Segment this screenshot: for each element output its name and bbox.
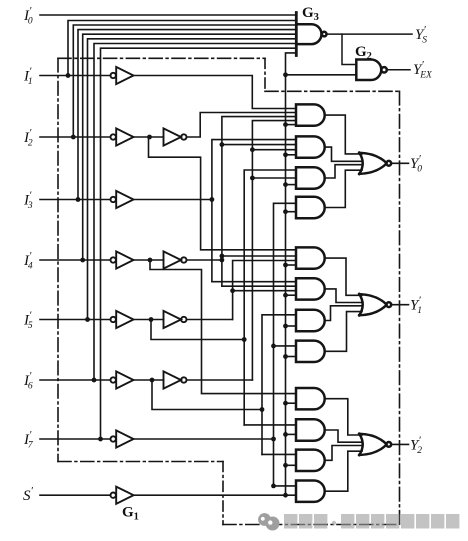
node: I6bar tap A2 junction bbox=[250, 147, 255, 152]
AND gate A3 bbox=[296, 167, 325, 188]
node: I7' tap junction bbox=[98, 437, 103, 442]
wire: C3 output to NOR Y2 input 3 bbox=[325, 446, 362, 461]
wire: input row I2' bbox=[40, 136, 111, 138]
wire: S tap to B3 input 2 bbox=[286, 325, 297, 327]
IC boundary chain line: left edge bbox=[57, 58, 59, 461]
svg-text:Y′EX: Y′EX bbox=[413, 59, 433, 81]
node: I7 dropper C4 junction bbox=[271, 484, 276, 489]
wire: B3 output to NOR Y1 input 3 bbox=[325, 306, 362, 321]
svg-text:Y′S: Y′S bbox=[415, 24, 427, 46]
wire: S tap to C1 input 2 bbox=[286, 402, 297, 404]
wire: C1 output to NOR Y2 input 1 bbox=[325, 399, 362, 435]
wire: I2 inverter output segment bbox=[134, 136, 164, 138]
node: I3' tap junction bbox=[76, 197, 81, 202]
wire: S tap to A2 input 4 bbox=[286, 154, 297, 156]
wire: I2bar second inverter output up to A1 input 2 bbox=[186, 113, 296, 138]
svg-text:I′2: I′2 bbox=[23, 127, 33, 149]
svg-text:I′0: I′0 bbox=[23, 5, 33, 27]
node: I1' tap junction bbox=[66, 73, 71, 78]
wire: I5bar tap to B2 input 3 bbox=[233, 290, 296, 292]
node: S-A4 junction bbox=[283, 209, 288, 214]
wire: input row I4' bbox=[40, 259, 111, 261]
wire: I4bar tap to A2 input 2 bbox=[222, 144, 296, 146]
wire: I4bar second inverter output to channel riser bbox=[186, 259, 222, 261]
wire: G2 output to Yex' bbox=[387, 69, 410, 71]
wire: input row I7' bbox=[40, 438, 111, 440]
wire: S tap to C2 input 2 bbox=[286, 433, 297, 435]
inverter row I1 bbox=[111, 67, 134, 84]
svg-text:Y′1: Y′1 bbox=[410, 295, 422, 317]
IC boundary chain line: lower left horizontal bbox=[58, 461, 223, 463]
node: I6 riser junction bbox=[260, 407, 265, 412]
wire: A4 output to NOR Y0 input 4 bbox=[325, 170, 362, 207]
svg-text:I′3: I′3 bbox=[23, 190, 33, 212]
inverter row I3 bbox=[111, 191, 134, 208]
watermark logo icon bbox=[258, 513, 279, 530]
wire: B4 output to NOR Y1 input 4 bbox=[325, 312, 362, 352]
node: S-B3 junction bbox=[283, 324, 288, 329]
wire: I1 inverter output to A1 input 1 bbox=[134, 76, 297, 109]
node: S-A3 junction bbox=[283, 182, 288, 187]
wire: I6bar tap to A3 input 2 bbox=[252, 177, 296, 179]
wire: bus tap I7' to G3 bbox=[101, 48, 297, 439]
wire: A1 output to NOR Y0 input 1 bbox=[325, 115, 362, 154]
node: I2 inverter output junction bbox=[147, 135, 152, 140]
IC boundary chain line: top edge bbox=[58, 57, 265, 59]
wire: I7 riser to A4 input 1 and dropper to C4 input 1 bbox=[274, 203, 297, 486]
IC boundary chain line: right edge bbox=[399, 91, 401, 524]
wire: bus tap I2' to G3 bbox=[73, 25, 296, 137]
wire: NOR Y0 output to Y0' bbox=[391, 162, 408, 164]
wire: I3 to B2 input 1 horizontal bbox=[212, 281, 296, 283]
inverter row I7 bbox=[111, 430, 134, 447]
svg-text:I′5: I′5 bbox=[23, 310, 33, 332]
svg-text:G1: G1 bbox=[122, 505, 139, 523]
wire: S tap to B1 input 4 bbox=[286, 264, 297, 266]
wire: I4 true signal down to C1 input 1 bbox=[150, 260, 296, 394]
wire: I4bar riser to A1 input 3, taps A2/B1, drop to B2 input 2 bbox=[222, 117, 296, 287]
node: S-G2 junction bbox=[283, 72, 288, 77]
svg-text:I′6: I′6 bbox=[23, 370, 33, 392]
wire: I5bar riser to B1 input 3, tap B2 input 3 bbox=[233, 261, 296, 320]
AND gate B2 bbox=[296, 278, 325, 299]
node: I4 inverter output junction bbox=[148, 258, 153, 263]
wire: C2 output to NOR Y2 input 2 bbox=[325, 430, 362, 442]
node: S-G1 output junction bbox=[283, 493, 288, 498]
IC boundary chain line: lower jog vertical bbox=[222, 462, 224, 525]
wire: bus tap I5' to G3 bbox=[88, 39, 297, 320]
wire: I6 inverter output segment bbox=[134, 379, 164, 381]
NOR gate for Y1' bbox=[359, 294, 391, 315]
AND gate B1 bbox=[296, 247, 325, 268]
wire: input row I0' from label to G3 input bar bbox=[40, 14, 296, 16]
svg-text:Y′0: Y′0 bbox=[410, 153, 422, 175]
AND gate A4 bbox=[296, 197, 325, 218]
wire: I6bar second inverter output to riser bbox=[186, 379, 252, 381]
wire: I4bar tap to B1 input 2 bbox=[222, 255, 296, 257]
wire: I6bar tap to A2 input 3 bbox=[252, 149, 296, 151]
wire: I7 inverter output to channel bbox=[134, 438, 274, 440]
wire: NOR Y2 output to Y2' bbox=[391, 443, 408, 445]
second inverter row I5 bbox=[164, 311, 187, 328]
svg-text:I′4: I′4 bbox=[23, 250, 33, 272]
svg-text:I′7: I′7 bbox=[23, 429, 34, 451]
node: S-C3 junction bbox=[283, 463, 288, 468]
AND gate C2 bbox=[296, 419, 325, 440]
wire: I5 inverter output segment bbox=[134, 319, 164, 321]
AND gate A1 bbox=[296, 104, 325, 125]
AND gate A2 bbox=[296, 136, 325, 157]
wire: I7 to C4 input 1 horizontal bbox=[274, 485, 297, 487]
wire: I3 vertical riser to A2 input 1 and dropper to B2 input 1 bbox=[212, 140, 296, 282]
inverter row I4 bbox=[111, 251, 134, 268]
node: I3 riser junction bbox=[210, 197, 215, 202]
wire: input row I1' bbox=[40, 75, 111, 77]
node: S-A1 junction bbox=[283, 122, 288, 127]
AND gate C3 bbox=[296, 450, 325, 471]
inverter row I5 bbox=[111, 311, 134, 328]
wire: A2 output to NOR Y0 input 2 bbox=[325, 147, 362, 161]
wire: bus tap I1' to G3 bbox=[68, 21, 296, 76]
second inverter row I6 bbox=[164, 371, 187, 388]
wire: I5bar second inverter output to riser bbox=[186, 319, 232, 321]
IC boundary chain line: upper right horizontal bbox=[265, 90, 400, 92]
node: S-B1 junction bbox=[283, 263, 288, 268]
second inverter row I2 bbox=[164, 128, 187, 145]
wire: bus tap I6' to G3 bbox=[94, 44, 296, 381]
node: I5bar tap B2 junction bbox=[230, 288, 235, 293]
NOR gate for Y2' bbox=[359, 434, 391, 455]
node: S-C1 junction bbox=[283, 401, 288, 406]
wire: I6 to C3 input 1 horizontal bbox=[262, 453, 296, 455]
svg-text:Y′2: Y′2 bbox=[410, 435, 422, 457]
AND gate C1 bbox=[296, 388, 325, 409]
inverter row I2 bbox=[111, 128, 134, 145]
node: I6 inverter output junction bbox=[150, 378, 155, 383]
wire: bus tap I3' to G3 bbox=[78, 30, 296, 200]
IC boundary chain line: top jog vertical bbox=[264, 58, 266, 91]
wire: S vertical line to G3 bottom input bbox=[286, 53, 297, 495]
wire: I6 riser/dropper to B3 input 1 and C3 input 1 bbox=[262, 315, 296, 455]
wire: I2 true signal down-jog to B1 input 1 bbox=[149, 137, 297, 250]
wire: input row I3' bbox=[40, 199, 111, 201]
wire: S tap to C3 input 2 bbox=[286, 464, 297, 466]
wire: S tap to A4 input 2 bbox=[286, 211, 297, 213]
wire: I4 inverter output segment bbox=[134, 259, 164, 261]
node: I6' tap junction bbox=[92, 378, 97, 383]
wire: I7 tap to B4 input 1 bbox=[274, 345, 297, 347]
node: S-B2 junction bbox=[283, 293, 288, 298]
node: I7 tap B4 junction bbox=[271, 344, 276, 349]
node: S-C2 junction bbox=[283, 432, 288, 437]
node: I4bar riser junction bbox=[220, 258, 225, 263]
wire: I5 riser/dropper to A3 input 1 and C2 input 1 bbox=[244, 170, 296, 425]
svg-text:I′1: I′1 bbox=[23, 66, 33, 88]
wire: B2 output to NOR Y1 input 2 bbox=[325, 289, 362, 303]
NAND gate G2 bbox=[356, 60, 387, 81]
wire: I3 inverter output to channel bbox=[134, 199, 212, 201]
svg-text:G2: G2 bbox=[355, 44, 372, 62]
node: I5 inverter output junction bbox=[149, 317, 154, 322]
NAND gate G3 bbox=[296, 13, 326, 56]
node: I5 riser junction bbox=[242, 337, 247, 342]
node: I4bar tap B1 junction bbox=[220, 254, 225, 259]
IC boundary chain line: bottom edge bbox=[223, 524, 400, 526]
wire: input row S' bbox=[40, 494, 111, 496]
svg-text:G3: G3 bbox=[302, 5, 319, 23]
wire: I6bar riser to A1 input 4, taps A2/A3 bbox=[252, 121, 296, 380]
node: I2' tap junction bbox=[71, 135, 76, 140]
inverter row I6 bbox=[111, 371, 134, 388]
wire: S tap to B2 input 4 bbox=[286, 294, 297, 296]
node: I4bar tap A2 junction bbox=[220, 142, 225, 147]
second inverter row I4 bbox=[164, 251, 187, 268]
AND gate B4 bbox=[296, 341, 325, 362]
node: S-B4 junction bbox=[283, 354, 288, 359]
inverter G1 on S' row bbox=[111, 487, 134, 504]
node: I4' tap junction bbox=[80, 258, 85, 263]
wire: A3 output to NOR Y0 input 3 bbox=[325, 165, 362, 178]
wire: C4 output to NOR Y2 input 4 bbox=[325, 451, 362, 491]
wire: input row I6' bbox=[40, 379, 111, 381]
wire: S tap to A1 input 5 bbox=[286, 124, 297, 126]
wire: input row I5' bbox=[40, 319, 111, 321]
wire: bus tap I4' to G3 bbox=[83, 34, 297, 260]
wire: I5 to C2 input 1 horizontal bbox=[244, 424, 296, 426]
wire: S tap to G2 input 2 bbox=[286, 74, 357, 76]
wire: G3 output to Ys' bbox=[327, 33, 412, 35]
node: I5' tap junction bbox=[85, 317, 90, 322]
wire: I5 true signal descent and cross link bbox=[151, 320, 244, 340]
wire: I6 true signal descent and cross link bbox=[152, 380, 262, 410]
wire: I4bar to B2 input 2 horizontal bbox=[222, 285, 296, 287]
node: I7 riser junction bbox=[271, 437, 276, 442]
node: I6bar tap A3 junction bbox=[250, 176, 255, 181]
AND gate B3 bbox=[296, 310, 325, 331]
watermark text blocks bbox=[284, 514, 459, 529]
wire: G1 output S to C4 input 2 bbox=[134, 494, 297, 496]
wire: Ys' branch down to G2 input 1 bbox=[342, 34, 356, 64]
AND gate C4 bbox=[296, 481, 325, 502]
NOR gate for Y0' bbox=[359, 153, 391, 174]
wire: NOR Y1 output to Y1' bbox=[391, 304, 408, 306]
node: S-A2 junction bbox=[283, 152, 288, 157]
wire: S tap to A3 input 3 bbox=[286, 184, 297, 186]
wire: S tap to B4 input 2 bbox=[286, 356, 297, 358]
wire: B1 output to NOR Y1 input 1 bbox=[325, 258, 362, 295]
svg-text:S′: S′ bbox=[23, 485, 34, 504]
